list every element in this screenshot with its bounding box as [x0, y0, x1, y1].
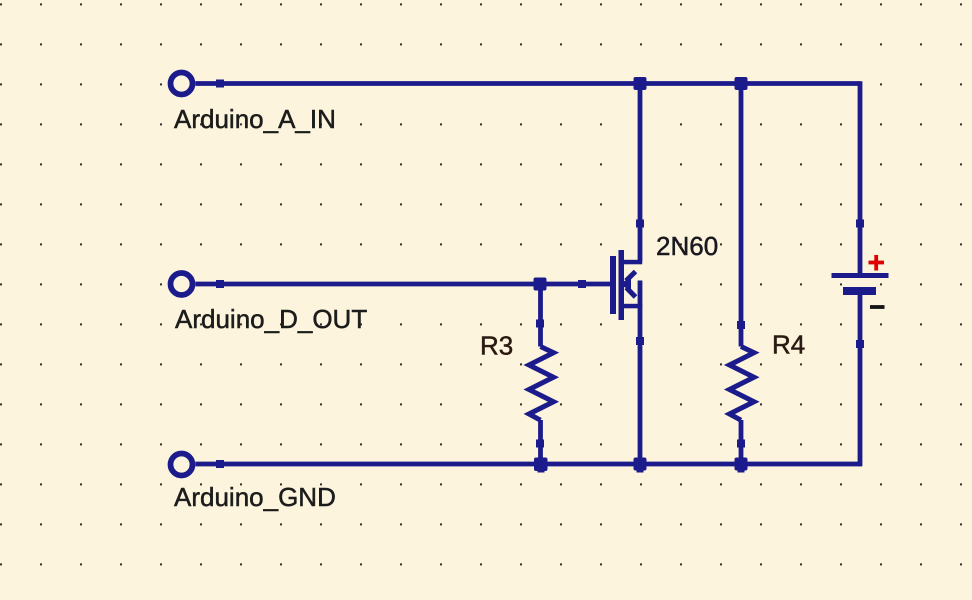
- wire endpoint nub at battery + pin: [856, 220, 864, 228]
- battery BT1: [832, 273, 889, 295]
- wire endpoint nub at D_OUT: [216, 280, 224, 288]
- wire R4 bottom lead: [739, 420, 744, 464]
- wire endpoint nub at gate pin: [578, 280, 586, 288]
- wire endpoint nub at R3 top pin: [536, 320, 544, 328]
- wire endpoint nub at R4 top pin: [737, 321, 745, 329]
- wire endpoint nub at source pin: [636, 337, 644, 345]
- body arrow upper barb: [626, 272, 636, 281]
- wire right rail bottom (battery - to GND rail): [858, 295, 863, 466]
- body arrow lower barb: [626, 288, 635, 298]
- junction node source/GND rail: [634, 458, 647, 471]
- junction node R4/GND rail: [735, 458, 748, 471]
- body arrow head: [619, 278, 632, 291]
- junction node drain/top rail: [634, 77, 647, 90]
- svg-text:Arduino_GND: Arduino_GND: [174, 482, 336, 512]
- wire endpoint nub at battery - pin: [856, 340, 864, 348]
- battery minus sign: [870, 305, 885, 309]
- wire Arduino_GND bottom rail: [196, 462, 863, 467]
- wire right rail top (to battery +): [858, 81, 863, 273]
- wire endpoint nub at R3 bottom pin: [536, 440, 544, 448]
- svg-text:Arduino_D_OUT: Arduino_D_OUT: [175, 304, 367, 334]
- wire drain vertical: [638, 84, 643, 262]
- svg-text:2N60: 2N60: [656, 231, 718, 261]
- wire source vertical: [638, 281, 643, 465]
- resistor R4: [730, 347, 755, 421]
- terminal Arduino_A_IN: [171, 73, 193, 95]
- svg-text:R4: R4: [772, 330, 805, 360]
- terminal Arduino_GND: [171, 454, 193, 476]
- wire endpoint nub at drain pin: [636, 220, 644, 228]
- wire Arduino_D_OUT to gate: [196, 282, 611, 287]
- battery plus sign: [869, 255, 885, 271]
- transistor Q1 2N60 MOSFET: [610, 250, 642, 320]
- drain connector: [624, 260, 642, 265]
- junction node R4/top rail: [735, 77, 748, 90]
- svg-text:R3: R3: [480, 331, 513, 361]
- wire Arduino_A_IN top rail: [196, 81, 861, 86]
- source connector: [624, 304, 642, 309]
- resistor R3: [529, 347, 554, 421]
- wire R4 top lead: [739, 84, 744, 347]
- wire endpoint nub at GND: [216, 460, 224, 468]
- junction node gate/R3: [534, 278, 547, 291]
- channel bar: [619, 250, 625, 320]
- junction node R3/GND rail: [534, 458, 548, 472]
- wire R3 top lead: [538, 284, 543, 347]
- battery long plate (+): [832, 273, 889, 278]
- wire endpoint nub at A_IN: [216, 80, 224, 88]
- gate bar: [610, 256, 616, 314]
- wire endpoint nub at R4 bottom pin: [737, 440, 745, 448]
- terminal Arduino_D_OUT: [171, 273, 193, 295]
- wire R3 bottom lead: [538, 420, 543, 464]
- battery short plate (-): [843, 287, 876, 295]
- svg-text:Arduino_A_IN: Arduino_A_IN: [174, 104, 336, 134]
